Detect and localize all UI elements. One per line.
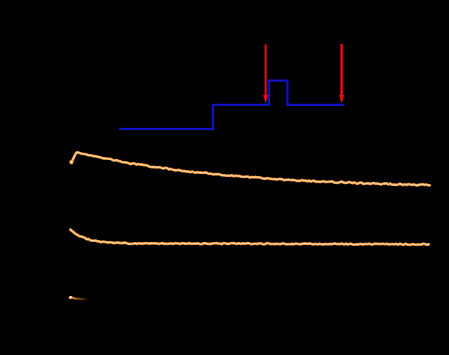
red arrow 1 head [263, 95, 268, 103]
red arrow 1 shaft [265, 44, 267, 100]
upper trace start dot [70, 161, 72, 163]
upper trace start dot halo [69, 160, 73, 164]
third trace bright start blob [69, 296, 72, 299]
blue bias-pulse waveform [119, 81, 344, 129]
lower orange decay trace (bright core) [71, 230, 429, 245]
bright beads on traces [70, 162, 72, 164]
red arrow 2 shaft [340, 44, 343, 100]
red arrow 2 head [339, 95, 344, 103]
lower orange decay trace (base) [71, 230, 429, 245]
upper orange decay trace (bright core) [72, 152, 430, 185]
upper orange decay trace (base) [72, 152, 430, 185]
